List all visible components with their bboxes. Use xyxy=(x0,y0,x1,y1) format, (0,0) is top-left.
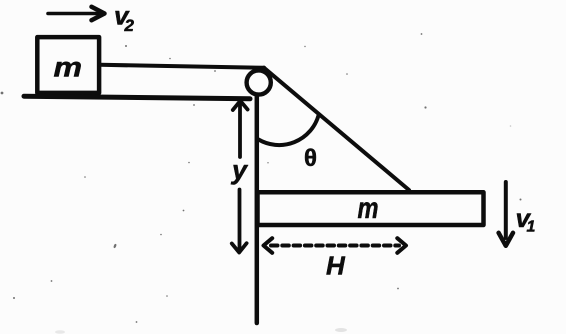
label v2 xyxy=(114,0,135,35)
svg-text:m: m xyxy=(54,52,83,83)
vertical wall edge line xyxy=(255,95,260,323)
velocity arrow v2 xyxy=(48,7,105,20)
svg-text:1: 1 xyxy=(527,219,536,236)
velocity arrow v1 xyxy=(499,182,513,246)
svg-text:y: y xyxy=(230,155,249,185)
block m (lower, hanging) xyxy=(258,192,484,225)
string over pulley to lower block (diagonal segment) xyxy=(264,68,409,190)
svg-text:2: 2 xyxy=(124,16,135,35)
svg-text:H: H xyxy=(326,250,346,280)
label v1 xyxy=(516,203,536,236)
dimension arrow H (dashed, double-headed) xyxy=(264,238,407,253)
svg-text:m: m xyxy=(358,192,379,225)
string from block to pulley (top segment) xyxy=(100,65,264,68)
table surface line xyxy=(24,96,250,99)
pulley at table edge xyxy=(247,70,271,94)
dimension arrow y (double-headed) xyxy=(232,101,248,253)
angle arc xyxy=(259,116,319,146)
svg-text:θ: θ xyxy=(304,145,317,172)
block m (upper, on table) xyxy=(37,37,99,93)
